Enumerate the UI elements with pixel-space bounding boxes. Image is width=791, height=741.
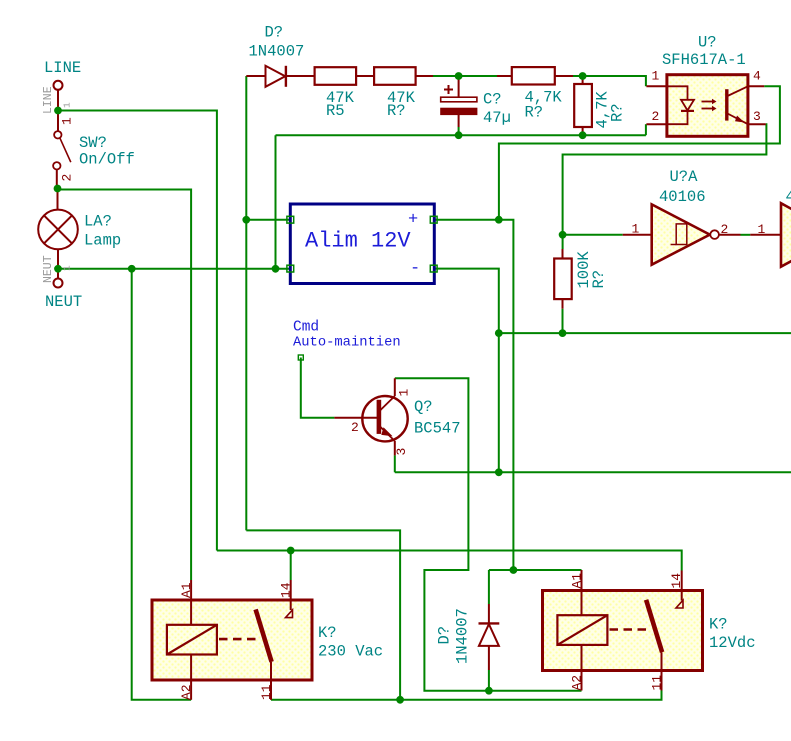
wire collector to relay K2 coil A2 xyxy=(395,378,582,690)
svg-text:LINE: LINE xyxy=(42,86,55,114)
wire flyback diode top lead xyxy=(488,570,490,604)
svg-text:14: 14 xyxy=(279,582,294,598)
svg-text:A1: A1 xyxy=(570,573,585,589)
svg-text:On/Off: On/Off xyxy=(79,151,135,169)
wire emitter stub xyxy=(394,455,396,472)
svg-text:2: 2 xyxy=(60,174,75,182)
svg-text:R?: R? xyxy=(590,270,608,289)
wire switch output to relay K1 coil A1 xyxy=(58,190,192,581)
svg-text:14: 14 xyxy=(669,573,684,589)
svg-text:A2: A2 xyxy=(570,675,585,691)
svg-text:R?: R? xyxy=(609,103,627,122)
svg-text:1: 1 xyxy=(60,117,75,125)
junction R4 top xyxy=(579,72,587,80)
wire down to bottom contact line xyxy=(246,530,400,699)
resistor R2 47K xyxy=(374,67,433,85)
svg-text:K?: K? xyxy=(318,624,337,642)
junction R4 bottom xyxy=(579,131,587,139)
junction cap top xyxy=(455,72,463,80)
svg-text:2: 2 xyxy=(721,222,729,237)
svg-text:LINE: LINE xyxy=(44,59,81,77)
junction +12V relay line xyxy=(510,566,518,574)
wire ground drop to emitter rail xyxy=(498,333,500,472)
inverter U?A 40106 xyxy=(623,204,741,264)
resistor R5 47K xyxy=(315,67,375,85)
svg-text:Q?: Q? xyxy=(414,398,433,416)
svg-text:K?: K? xyxy=(709,616,728,634)
junction neutral drop xyxy=(128,265,136,273)
svg-text:SFH617A-1: SFH617A-1 xyxy=(662,51,746,69)
svg-text:BC547: BC547 xyxy=(414,420,461,438)
svg-text:NEUT: NEUT xyxy=(42,255,55,283)
svg-text:Alim 12V: Alim 12V xyxy=(305,229,411,254)
wire Cmd label to transistor base xyxy=(301,358,335,418)
resistor R6 100K xyxy=(554,249,572,309)
svg-text:1: 1 xyxy=(397,389,412,397)
inverter U?B 40106 clipped at edge xyxy=(750,203,791,267)
svg-text:3: 3 xyxy=(753,109,761,124)
svg-text:3: 3 xyxy=(394,448,409,456)
svg-text:230 Vac: 230 Vac xyxy=(318,643,383,661)
wire ground rail xyxy=(499,332,791,334)
wire Alim + output xyxy=(434,220,514,570)
wire opto pin3 to inverter input xyxy=(563,124,767,249)
relay K? 12Vdc xyxy=(543,570,703,691)
connector P1 LINE xyxy=(42,81,73,114)
svg-text:1: 1 xyxy=(652,69,660,84)
resistor R4 4,7K vertical xyxy=(574,76,592,135)
node Cmd anchor square xyxy=(298,355,303,360)
svg-text:12Vdc: 12Vdc xyxy=(709,634,756,652)
resistor R3 4,7K horizontal xyxy=(497,67,573,84)
svg-text:D?: D? xyxy=(436,626,454,645)
svg-text:D?: D? xyxy=(265,24,284,42)
svg-text:47µ: 47µ xyxy=(483,109,511,127)
wire LINE bottom rail to relay contacts 14 xyxy=(217,551,682,571)
svg-text:U?: U? xyxy=(698,34,717,52)
svg-text:Lamp: Lamp xyxy=(84,232,121,250)
svg-text:11: 11 xyxy=(649,675,664,691)
wire diode anode column xyxy=(245,76,247,530)
svg-text:Auto-maintien: Auto-maintien xyxy=(293,335,401,351)
wire flyback diode bottom lead xyxy=(488,670,490,691)
wire NEUT to Alim lower-left pin xyxy=(58,268,290,270)
svg-text:A1: A1 xyxy=(179,582,194,598)
transistor Q? BC547 xyxy=(334,378,407,455)
svg-text:40106: 40106 xyxy=(659,188,706,206)
svg-text:R?: R? xyxy=(525,104,544,122)
wire neutral rail under cap xyxy=(276,134,646,136)
svg-text:A2: A2 xyxy=(179,684,194,700)
svg-text:1: 1 xyxy=(632,222,640,237)
lamp LA? xyxy=(38,189,78,269)
svg-text:NEUT: NEUT xyxy=(45,293,82,311)
svg-text:1N4007: 1N4007 xyxy=(454,608,472,664)
wire opto pin4 to +12V node xyxy=(499,86,780,219)
svg-text:40106: 40106 xyxy=(786,188,791,206)
junction flyback diode bottom xyxy=(485,687,493,695)
svg-text:-: - xyxy=(410,260,420,279)
junction ground corner xyxy=(495,329,503,337)
wire to Alim upper-left pin xyxy=(246,219,290,221)
wire 100K bottom lead xyxy=(562,309,564,333)
svg-text:LA?: LA? xyxy=(84,213,112,231)
svg-text:2: 2 xyxy=(652,109,660,124)
svg-text:11: 11 xyxy=(259,684,274,700)
relay K? 230 Vac xyxy=(152,580,312,700)
wire relay K1 pin14 drop xyxy=(290,551,292,581)
junction lamp bottom xyxy=(54,265,62,273)
junction switch output xyxy=(54,185,62,193)
wire bottom contacts 11 line xyxy=(271,691,662,700)
junction +12V xyxy=(495,216,503,224)
svg-text:1: 1 xyxy=(62,265,73,271)
junction neutral riser xyxy=(272,265,280,273)
junction inverter input xyxy=(559,231,567,239)
opto-coupler U? SFH617A-1 xyxy=(646,75,765,137)
svg-text:+: + xyxy=(408,211,418,230)
switch SW? On/Off xyxy=(53,111,74,189)
svg-text:2: 2 xyxy=(351,420,359,435)
svg-text:1: 1 xyxy=(758,222,766,237)
svg-text:Cmd: Cmd xyxy=(293,320,319,336)
capacitor C? 47u xyxy=(441,76,477,135)
sheet Alim 12V xyxy=(287,204,437,284)
svg-text:U?A: U?A xyxy=(670,168,699,186)
svg-text:1: 1 xyxy=(62,102,73,108)
junction Alim phase tap xyxy=(242,216,250,224)
wire neutral cap rail riser xyxy=(275,135,277,269)
wire inverter input xyxy=(563,234,623,236)
wire Alim - output xyxy=(434,269,499,334)
wire top rail segment to opto xyxy=(573,76,646,86)
svg-text:4: 4 xyxy=(753,69,761,84)
junction cap bottom xyxy=(455,131,463,139)
svg-text:1N4007: 1N4007 xyxy=(249,43,305,61)
svg-text:C?: C? xyxy=(483,91,502,109)
junction emitter ground xyxy=(495,468,503,476)
junction LINE xyxy=(54,107,62,115)
wire LINE junction to corner xyxy=(58,111,217,551)
svg-text:R?: R? xyxy=(387,102,406,120)
diode D1 1N4007 xyxy=(246,66,314,87)
wire inverter1 output to inverter2 xyxy=(741,234,751,236)
wire NEUT down to relay K1 coil A2 xyxy=(132,269,191,700)
svg-text:SW?: SW? xyxy=(79,134,107,152)
wire opto pin2 to neutral rail xyxy=(645,124,647,135)
svg-text:R5: R5 xyxy=(326,102,345,120)
junction bottom contact line xyxy=(396,696,404,704)
wire +12V to relay K2 coil A1 xyxy=(489,569,582,571)
wire top rail segment after R xyxy=(433,75,497,77)
junction relay K1 pin14 xyxy=(287,547,295,555)
diode D2 1N4007 flyback xyxy=(479,604,500,670)
junction 100K bottom xyxy=(559,329,567,337)
connector P2 NEUT xyxy=(42,255,73,287)
wire emitter rail xyxy=(395,471,791,473)
